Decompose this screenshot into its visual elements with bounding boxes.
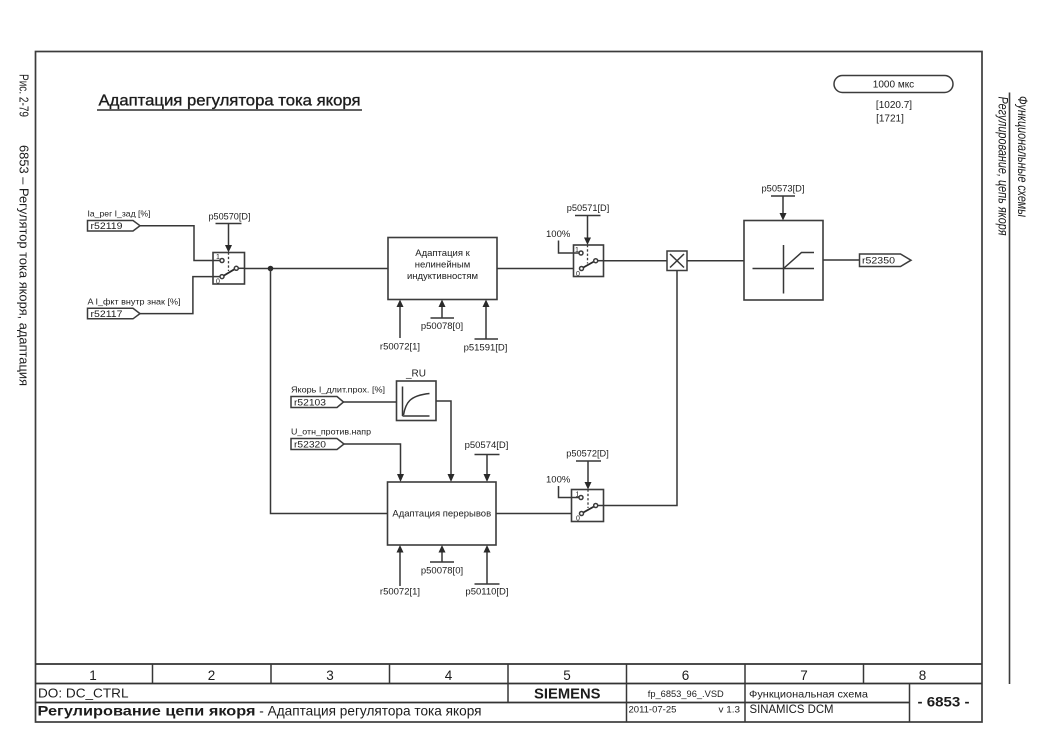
svg-text:p50078[0]: p50078[0] <box>421 566 463 577</box>
svg-text:Адаптация регулятора тока якор: Адаптация регулятора тока якоря <box>99 93 361 110</box>
svg-text:p50573[D]: p50573[D] <box>762 184 805 195</box>
svg-text:r52103: r52103 <box>294 398 326 409</box>
svg-text:нелинейным: нелинейным <box>415 260 471 271</box>
svg-text:индуктивностям: индуктивностям <box>407 271 478 282</box>
svg-text:p50571[D]: p50571[D] <box>567 203 610 214</box>
svg-text:Функциональная схема: Функциональная схема <box>749 689 868 701</box>
svg-text:Регулирование, цепь якоря: Регулирование, цепь якоря <box>996 97 1011 236</box>
svg-text:_RU: _RU <box>405 369 426 380</box>
svg-text:[1721]: [1721] <box>876 114 904 125</box>
svg-text:[1020.7]: [1020.7] <box>876 100 912 111</box>
svg-text:r52320: r52320 <box>294 440 326 451</box>
svg-text:SIEMENS: SIEMENS <box>534 687 601 703</box>
svg-text:p50078[0]: p50078[0] <box>421 321 463 332</box>
svg-text:2011-07-25: 2011-07-25 <box>629 705 677 716</box>
svg-text:2: 2 <box>208 668 216 683</box>
svg-text:r50072[1]: r50072[1] <box>380 587 420 598</box>
svg-text:100%: 100% <box>546 229 571 240</box>
svg-text:A I_фкт внутр знак [%]: A I_фкт внутр знак [%] <box>88 297 181 307</box>
svg-text:100%: 100% <box>546 475 571 486</box>
svg-text:DO: DC_CTRL: DO: DC_CTRL <box>38 686 129 701</box>
svg-text:Адаптация перерывов: Адаптация перерывов <box>392 509 491 520</box>
svg-text:Рис. 2-79: Рис. 2-79 <box>17 74 31 117</box>
svg-text:Ia_рег I_зад [%]: Ia_рег I_зад [%] <box>88 209 151 219</box>
svg-text:3: 3 <box>326 668 334 683</box>
svg-text:8: 8 <box>919 668 927 683</box>
svg-text:r52119: r52119 <box>91 221 123 232</box>
svg-text:r50072[1]: r50072[1] <box>380 342 420 353</box>
svg-text:Адаптация к: Адаптация к <box>415 248 470 259</box>
svg-text:5: 5 <box>563 668 571 683</box>
svg-text:- 6853 -: - 6853 - <box>918 695 970 710</box>
svg-text:0: 0 <box>216 279 220 286</box>
svg-text:p50572[D]: p50572[D] <box>566 449 609 460</box>
svg-text:0: 0 <box>576 516 580 523</box>
svg-text:r52117: r52117 <box>91 309 123 320</box>
svg-text:7: 7 <box>800 668 808 683</box>
svg-text:p50110[D]: p50110[D] <box>465 587 508 598</box>
svg-text:0: 0 <box>576 271 580 278</box>
svg-text:Регулирование цепи якоря - Ада: Регулирование цепи якоря - Адаптация рег… <box>38 703 482 719</box>
svg-text:Функциональные схемы: Функциональные схемы <box>1015 96 1030 217</box>
svg-text:1: 1 <box>89 668 97 683</box>
svg-text:Якорь I_длит.прох. [%]: Якорь I_длит.прох. [%] <box>291 385 385 395</box>
svg-text:r52350: r52350 <box>862 256 895 267</box>
svg-text:p51591[D]: p51591[D] <box>464 343 508 354</box>
svg-text:U_отн_против.напр: U_отн_против.напр <box>291 427 371 437</box>
svg-text:p50574[D]: p50574[D] <box>465 440 509 451</box>
svg-text:fp_6853_96_.VSD: fp_6853_96_.VSD <box>648 689 724 700</box>
svg-text:6853 – Регулятор тока якоря, а: 6853 – Регулятор тока якоря, адаптация <box>17 145 31 386</box>
svg-text:SINAMICS DCM: SINAMICS DCM <box>750 702 834 716</box>
svg-text:1000 мкс: 1000 мкс <box>873 80 914 91</box>
svg-text:6: 6 <box>682 668 690 683</box>
svg-text:p50570[D]: p50570[D] <box>209 212 251 223</box>
svg-text:v 1.3: v 1.3 <box>719 705 741 716</box>
svg-text:4: 4 <box>445 668 453 683</box>
